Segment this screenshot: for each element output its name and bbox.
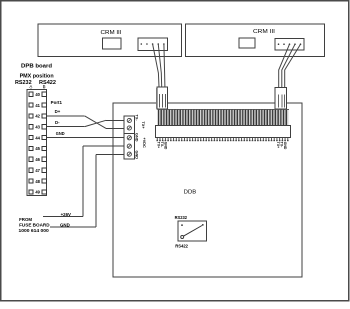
svg-text:49: 49 bbox=[35, 190, 40, 195]
svg-text:DDB: DDB bbox=[184, 189, 197, 195]
svg-text:DPB board: DPB board bbox=[21, 64, 52, 70]
svg-text:RS232: RS232 bbox=[15, 80, 32, 86]
svg-text:GND: GND bbox=[164, 142, 168, 150]
svg-text:44: 44 bbox=[35, 135, 40, 140]
svg-text:GND: GND bbox=[283, 142, 287, 150]
svg-text:46: 46 bbox=[35, 157, 40, 162]
svg-text:TX+: TX+ bbox=[141, 122, 145, 130]
svg-text:1000 614 000: 1000 614 000 bbox=[19, 228, 50, 233]
svg-text:D-: D- bbox=[55, 120, 60, 125]
svg-text:D+: D+ bbox=[55, 109, 61, 114]
svg-text:45: 45 bbox=[35, 146, 40, 151]
svg-text:42: 42 bbox=[35, 114, 40, 119]
svg-text:GND: GND bbox=[134, 133, 138, 142]
svg-text:PMX position: PMX position bbox=[20, 74, 54, 80]
svg-text:41: 41 bbox=[35, 103, 40, 108]
svg-text:GND: GND bbox=[56, 131, 65, 136]
svg-text:TX-: TX- bbox=[134, 115, 138, 122]
svg-text:RS422: RS422 bbox=[175, 244, 188, 249]
svg-text:48: 48 bbox=[35, 179, 40, 184]
svg-text:40: 40 bbox=[35, 92, 40, 97]
svg-text:FROM: FROM bbox=[19, 217, 32, 222]
svg-text:GND: GND bbox=[60, 223, 70, 228]
svg-text:RS422: RS422 bbox=[39, 80, 56, 86]
svg-text:Port1: Port1 bbox=[51, 100, 63, 105]
svg-text:RS232: RS232 bbox=[175, 215, 188, 220]
svg-text:43: 43 bbox=[35, 124, 40, 129]
svg-text:+26V: +26V bbox=[61, 212, 71, 217]
svg-text:+VDC: +VDC bbox=[142, 138, 146, 148]
svg-text:47: 47 bbox=[35, 168, 40, 173]
svg-text:GND: GND bbox=[134, 151, 138, 160]
svg-text:CRM III: CRM III bbox=[253, 29, 276, 35]
svg-text:CRM III: CRM III bbox=[101, 30, 122, 36]
